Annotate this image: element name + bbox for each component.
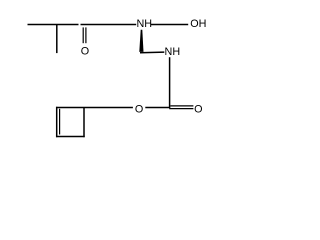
- cyclobutene right side: [83, 108, 85, 138]
- double bond C=O (top, two vertical lines): [82, 27, 84, 43]
- cyclobutene inner double bond line: [59, 109, 61, 135]
- cyclobutene top side and bond to ester O: [56, 107, 133, 109]
- bond carbonylC-N (top horizontal right segment): [81, 23, 137, 25]
- svg-text:NH: NH: [136, 18, 152, 30]
- bond NH-carbonylC (vertical): [169, 57, 171, 107]
- double bond C=O (bottom, two horizontal lines): [170, 105, 193, 107]
- cyclobutene bottom side: [56, 136, 85, 138]
- cyclobutene ring left side: [56, 107, 58, 137]
- svg-text:O: O: [194, 103, 202, 115]
- svg-text:NH: NH: [165, 46, 181, 58]
- bond N-OH: [151, 23, 188, 25]
- bond esterO-carbonylC: [145, 107, 170, 109]
- svg-text:O: O: [135, 103, 143, 115]
- svg-text:O: O: [81, 45, 89, 57]
- bond CH2-NH: [140, 51, 164, 54]
- wedge bond N-CH2: [139, 30, 143, 52]
- bond methyl-CH (top-left horizontal): [28, 23, 79, 25]
- bond CH-methyl (vertical down): [56, 24, 58, 53]
- wire: [28, 18, 207, 137]
- svg-text:OH: OH: [190, 18, 206, 30]
